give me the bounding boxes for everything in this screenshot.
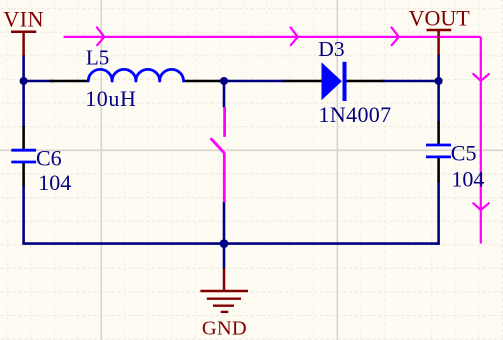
wire: switch branch lower — [223, 202, 226, 244]
svg-text:1N4007: 1N4007 — [319, 102, 392, 127]
diode D3 triangle — [322, 62, 342, 100]
switch lower lead — [223, 153, 226, 203]
flow arrow 4 (down) — [473, 74, 489, 81]
power port VOUT stem — [437, 30, 440, 55]
flow arrow 1 (right) — [97, 27, 104, 45]
switch (magenta) upper lead — [223, 107, 226, 137]
svg-text:VOUT: VOUT — [409, 6, 471, 31]
svg-text:D3: D3 — [318, 37, 344, 61]
svg-text:L5: L5 — [86, 45, 109, 69]
wire: right vertical upper (to C5) — [437, 80, 440, 123]
wire: VOUT stem lower — [437, 54, 440, 81]
diode D3 pin 2 (cathode side) — [346, 80, 384, 83]
ground symbol bar 3 — [213, 305, 234, 307]
wire: top rail middle segment — [219, 80, 285, 83]
wire: top rail right segment — [382, 80, 440, 83]
power port VIN stem — [22, 32, 25, 56]
switch blade — [211, 138, 225, 153]
svg-text:C5: C5 — [451, 140, 477, 165]
inductor L5 pin 1 — [50, 80, 89, 83]
ground symbol stem — [223, 268, 226, 291]
wire: top rail left segment — [22, 80, 53, 83]
wire: VIN stem lower — [22, 55, 25, 81]
diode D3 cathode bar — [343, 62, 347, 101]
ground symbol bar 1 — [200, 290, 248, 292]
magenta current-flow path: right vertical wire — [480, 37, 482, 244]
capacitor C5 plate 1 — [426, 144, 451, 147]
svg-text:VIN: VIN — [3, 7, 44, 32]
capacitor C5 pin 2 — [437, 158, 440, 183]
svg-text:104: 104 — [38, 170, 71, 195]
diode D3 pin 1 (anode side) — [284, 80, 323, 83]
ground symbol bar 4 — [221, 311, 229, 313]
magenta current-flow path: top horizontal wire — [64, 36, 481, 38]
flow arrow 5 (down) — [473, 203, 489, 210]
inductor L5 pin 2 — [183, 80, 221, 83]
flow arrow 2 (right) — [291, 27, 298, 45]
wire: bottom rail — [22, 242, 438, 245]
svg-text:C6: C6 — [36, 145, 62, 170]
junction at bottom rail / GND node — [220, 239, 229, 248]
wire: left vertical upper (to C6) — [22, 80, 25, 127]
capacitor C6 pin 1 — [22, 126, 25, 150]
wire: left vertical lower (C6 to bottom rail) — [22, 185, 25, 244]
wire: switch branch upper — [223, 80, 226, 108]
junction at VOUT / D3 / C5 node — [435, 77, 443, 85]
svg-text:GND: GND — [202, 317, 247, 339]
capacitor C5 plate 2 — [426, 155, 451, 158]
capacitor C6 plate 2 — [11, 161, 36, 164]
power port VOUT bar — [427, 29, 452, 32]
junction at VIN / C6 / L5 node — [20, 77, 28, 85]
junction at L5 / switch / D3 node — [220, 77, 228, 85]
flow arrow 3 (right) — [392, 27, 399, 45]
inductor L5 body (4 arcs) — [88, 69, 112, 81]
svg-text:10uH: 10uH — [85, 86, 136, 111]
ground symbol bar 2 — [207, 298, 241, 300]
capacitor C5 pin 1 — [437, 122, 440, 145]
capacitor C6 plate 1 — [11, 149, 36, 152]
power port VIN bar — [11, 31, 36, 34]
wire: GND drop — [223, 244, 226, 269]
wire: right vertical lower (C5 to bottom rail) — [437, 181, 440, 245]
svg-text:104: 104 — [451, 166, 484, 191]
capacitor C6 pin 2 — [22, 163, 25, 186]
